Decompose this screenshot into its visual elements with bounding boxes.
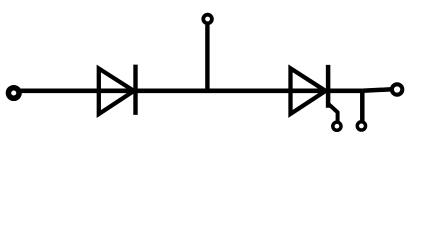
diode D1 triangle: [99, 69, 134, 115]
wire right segment: [362, 89, 392, 91]
wire main horizontal: [21, 89, 363, 94]
terminal left: [8, 88, 19, 99]
aux cathode terminal: [357, 122, 365, 130]
gate terminal: [333, 122, 341, 130]
thyristor cathode bar: [326, 65, 331, 108]
gate wire diagonal: [328, 104, 337, 121]
wire stub to top terminal: [205, 25, 209, 91]
diode D1 cathode bar: [133, 65, 137, 115]
terminal top: [203, 15, 212, 24]
terminal right: [392, 84, 402, 94]
wire stub to aux cathode terminal: [360, 91, 365, 121]
thyristor triangle: [291, 68, 326, 114]
